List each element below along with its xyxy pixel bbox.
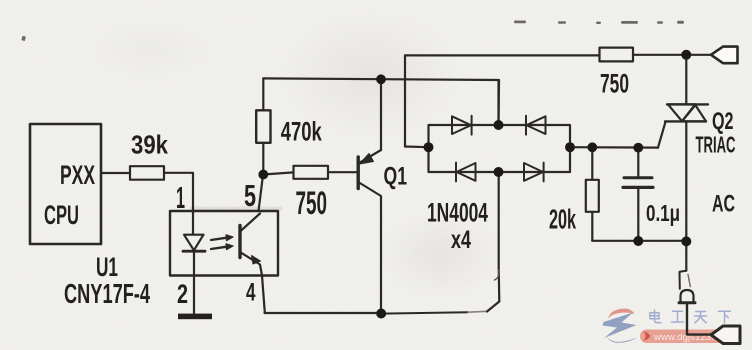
svg-text:4: 4 <box>246 279 256 307</box>
svg-text:AC: AC <box>712 191 735 218</box>
svg-text:20k: 20k <box>549 204 576 235</box>
svg-text:39k: 39k <box>131 130 168 160</box>
svg-text:Q1: Q1 <box>384 163 408 191</box>
svg-text:PXX: PXX <box>60 160 95 190</box>
svg-text:1N4004: 1N4004 <box>427 198 488 228</box>
svg-text:470k: 470k <box>281 116 323 146</box>
svg-text:CPU: CPU <box>44 200 79 230</box>
svg-text:x4: x4 <box>451 226 471 254</box>
svg-text:0.1μ: 0.1μ <box>646 200 680 226</box>
svg-text:5: 5 <box>244 178 256 213</box>
svg-text:CNY17F-4: CNY17F-4 <box>64 278 150 309</box>
svg-text:750: 750 <box>600 69 629 99</box>
svg-text:TRIAC: TRIAC <box>696 132 736 158</box>
svg-text:2: 2 <box>177 279 188 309</box>
svg-text:1: 1 <box>176 180 185 215</box>
svg-text:750: 750 <box>296 185 328 221</box>
